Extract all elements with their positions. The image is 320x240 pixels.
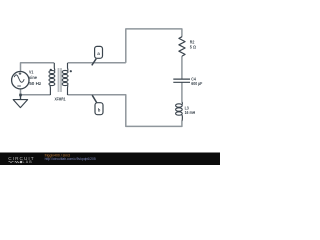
svg-text:600 µF: 600 µF	[191, 81, 202, 87]
svg-text:XFMR1: XFMR1	[55, 97, 66, 103]
svg-text:LAB: LAB	[23, 160, 33, 164]
svg-text:5 Ω: 5 Ω	[190, 45, 196, 51]
svg-text:V1: V1	[29, 69, 34, 75]
svg-text:b: b	[98, 108, 101, 113]
svg-text:sine: sine	[29, 75, 37, 81]
svg-text:16 mH: 16 mH	[185, 110, 196, 116]
svg-text:http://circuitlab.com/c/5vkpqb: http://circuitlab.com/c/5vkpqb6/205	[45, 157, 96, 161]
svg-text:R2: R2	[190, 39, 195, 45]
svg-text:50 Hz: 50 Hz	[29, 81, 42, 87]
